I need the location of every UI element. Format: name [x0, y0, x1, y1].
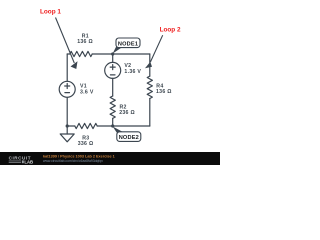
Loop 1 annotation arrow line [56, 18, 75, 64]
wire NODE1 down to V2 [112, 54, 114, 62]
ground symbol triangle [60, 134, 74, 142]
wire R3 to ground junction [67, 125, 75, 127]
svg-text:136 Ω: 136 Ω [77, 39, 93, 45]
Loop 1 arrowhead [71, 61, 78, 69]
wire R1 to NODE1 junction [92, 53, 113, 55]
wire NODE2 to R3 [97, 125, 113, 127]
junction dots [66, 52, 115, 127]
ground junction dot [66, 124, 69, 127]
wire R2 to NODE2 junction [112, 118, 114, 126]
node NODE1 junction dot [111, 52, 114, 55]
wire V1 to top-left corner [66, 54, 68, 81]
Loop 2 arrowhead [145, 62, 152, 69]
svg-text:1.36 V: 1.36 V [124, 69, 141, 75]
svg-text:Loop 1: Loop 1 [40, 9, 61, 16]
wire R4 to bottom-right corner [149, 99, 151, 127]
svg-text:136 Ω: 136 Ω [156, 89, 172, 95]
voltage source V1 [59, 81, 75, 97]
svg-text:www.circuitlab.com/circ/c6ax8f: www.circuitlab.com/circ/c6ax8fa93dqfqv [43, 159, 103, 163]
voltage source V2 [105, 62, 121, 78]
node label NODE2 box [117, 132, 141, 142]
svg-text:NODE1: NODE1 [118, 41, 138, 47]
wire bottom-right corner to NODE2 junction [113, 125, 150, 127]
resistor R2 [110, 96, 115, 118]
node label NODE1 box [116, 38, 140, 48]
wire ground junction up to V1 [66, 97, 68, 126]
wire top-left corner to R1 [67, 53, 70, 55]
footer bar [0, 152, 220, 165]
wire top-right corner down to R4 [149, 54, 151, 76]
svg-text:NODE2: NODE2 [119, 135, 139, 141]
svg-text:3.6 V: 3.6 V [80, 89, 94, 95]
node NODE2 junction dot [111, 124, 114, 127]
svg-text:336 Ω: 336 Ω [78, 141, 94, 147]
svg-text:Loop 2: Loop 2 [160, 26, 181, 33]
resistor R4 [147, 76, 152, 98]
node label NODE1 pointer wedge [113, 47, 122, 54]
footer CircuitLab logo [9, 155, 33, 164]
svg-text:236 Ω: 236 Ω [119, 110, 135, 116]
wire NODE1 to top-right corner [113, 53, 150, 55]
node label NODE2 pointer wedge [113, 127, 123, 133]
ground stem [66, 126, 68, 134]
wire V2 down to R2 [112, 78, 114, 96]
svg-text:LAB: LAB [24, 159, 33, 164]
resistor R3 [75, 123, 97, 128]
resistor R1 [70, 51, 92, 56]
Loop 2 annotation arrow line [150, 35, 162, 62]
